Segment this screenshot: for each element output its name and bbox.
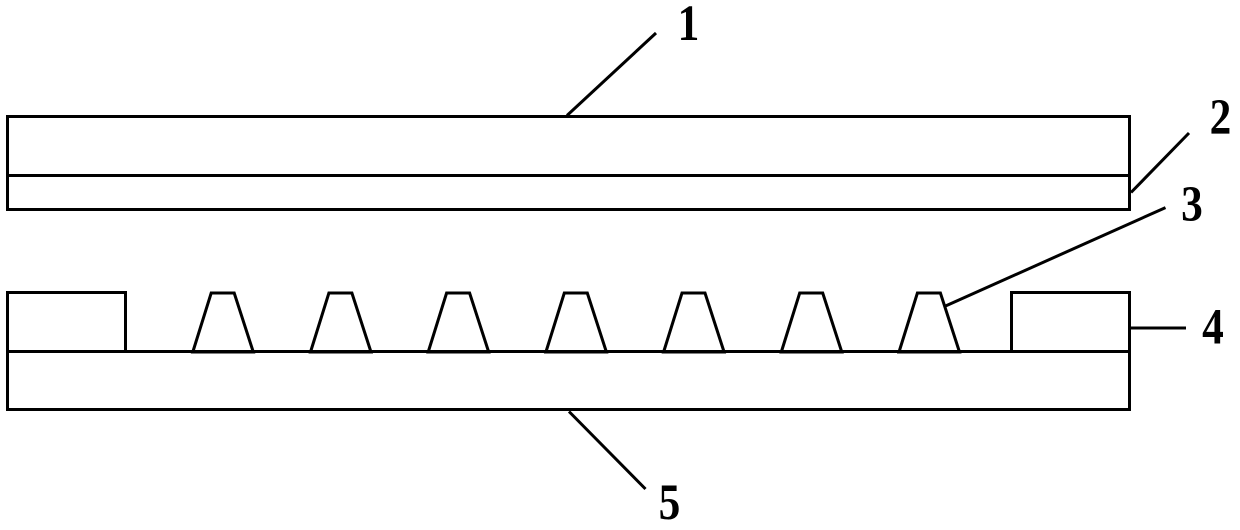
leader line to label 2 <box>1131 133 1189 193</box>
layer boundary line between layer 1 and layer 2 <box>8 174 1130 177</box>
svg-text:5: 5 <box>659 475 681 530</box>
left sealant block <box>8 293 126 352</box>
svg-text:3: 3 <box>1181 177 1203 233</box>
spacer trapezoid 6 <box>781 293 842 352</box>
spacer trapezoid 5 <box>664 293 725 352</box>
label 5 <box>659 475 681 530</box>
leader line to label 1 <box>567 33 656 116</box>
svg-text:4: 4 <box>1202 299 1224 355</box>
leader line to label 3 <box>946 208 1166 306</box>
label 3 <box>1181 177 1203 233</box>
label 2 <box>1210 90 1232 146</box>
leader line to label 5 <box>569 412 646 490</box>
label 1 <box>678 0 700 52</box>
right sealant block 4 <box>1012 293 1130 352</box>
bottom substrate layer 5 <box>8 352 1130 410</box>
spacer trapezoid 1 <box>193 293 254 352</box>
spacer trapezoid 3 <box>428 293 489 352</box>
svg-text:2: 2 <box>1210 90 1232 146</box>
spacer trapezoid 4 <box>546 293 607 352</box>
spacer trapezoid 2 <box>311 293 372 352</box>
label 4 <box>1202 299 1224 355</box>
leader line to label 4 <box>1129 327 1186 330</box>
top substrate layer 1 (upper glass) <box>8 117 1130 210</box>
svg-text:1: 1 <box>678 0 700 52</box>
spacer trapezoid 3 (pointed by label 3) <box>899 293 960 352</box>
